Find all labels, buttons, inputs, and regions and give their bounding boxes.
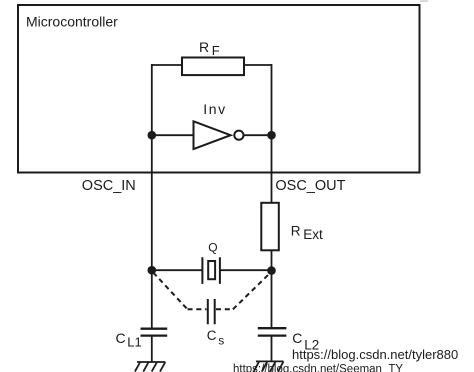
svg-text:Microcontroller: Microcontroller bbox=[26, 14, 118, 30]
svg-text:Ext: Ext bbox=[303, 227, 323, 242]
svg-text:s: s bbox=[218, 334, 224, 348]
svg-text:OSC_IN: OSC_IN bbox=[82, 178, 136, 194]
svg-text:L2: L2 bbox=[304, 338, 319, 353]
svg-text:Q: Q bbox=[208, 241, 217, 255]
svg-text:C: C bbox=[207, 328, 217, 343]
svg-text:L1: L1 bbox=[127, 334, 141, 349]
svg-text:Inv: Inv bbox=[203, 101, 226, 117]
svg-text:C: C bbox=[116, 330, 126, 346]
svg-text:F: F bbox=[212, 43, 220, 58]
svg-text:https://blog.csdn.net/Seeman_T: https://blog.csdn.net/Seeman_TY bbox=[233, 363, 403, 372]
svg-text:OSC_OUT: OSC_OUT bbox=[275, 178, 345, 194]
svg-text:C: C bbox=[292, 330, 302, 346]
svg-text:R: R bbox=[291, 224, 301, 239]
svg-text:R: R bbox=[199, 39, 209, 55]
